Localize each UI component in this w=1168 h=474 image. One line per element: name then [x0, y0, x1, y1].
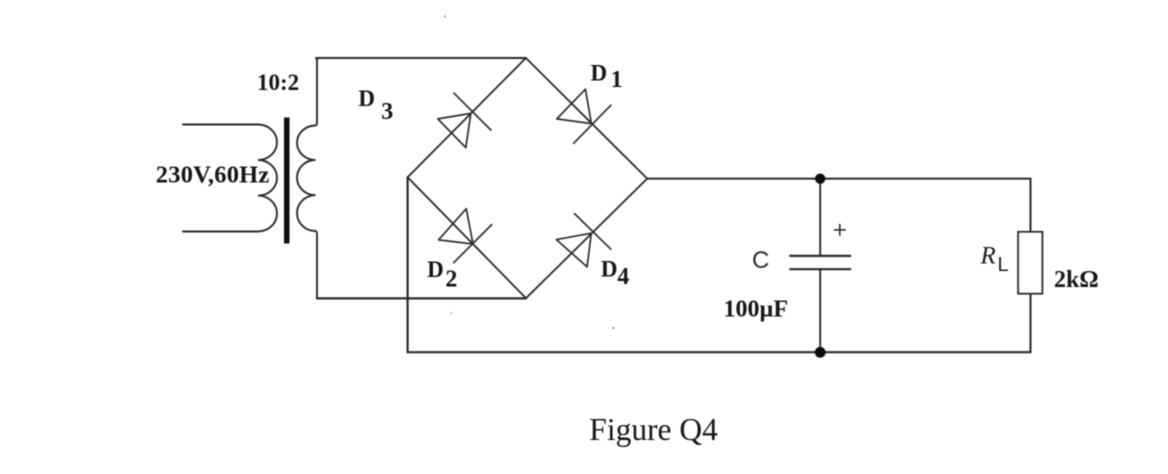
svg-text:D: D — [358, 86, 375, 111]
svg-text:230V,60Hz: 230V,60Hz — [156, 162, 270, 189]
svg-text:D: D — [601, 257, 618, 282]
svg-text:3: 3 — [381, 99, 393, 125]
svg-text:L: L — [998, 254, 1009, 276]
svg-text:Figure Q4: Figure Q4 — [589, 412, 718, 447]
svg-text:1: 1 — [611, 67, 623, 93]
svg-text:C: C — [752, 247, 769, 274]
svg-text:100µF: 100µF — [724, 297, 789, 323]
svg-text:2kΩ: 2kΩ — [1054, 267, 1099, 293]
svg-text:4: 4 — [617, 264, 629, 290]
svg-text:D: D — [591, 60, 608, 85]
svg-text:10:2: 10:2 — [257, 70, 299, 95]
svg-text:2: 2 — [445, 267, 457, 293]
svg-text:D: D — [427, 257, 444, 282]
svg-text:R: R — [980, 243, 996, 270]
